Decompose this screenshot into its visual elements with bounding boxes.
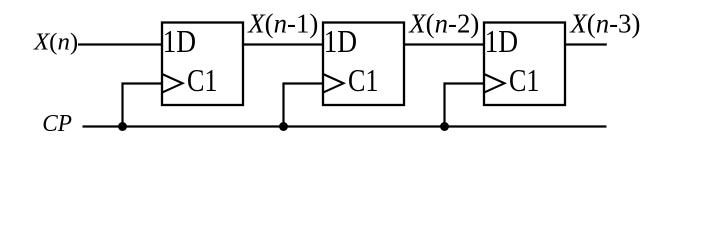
junction dot at CP/U1 stub [118,122,127,131]
svg-text:X(n-3): X(n-3) [569,9,640,39]
svg-text:C1: C1 [348,63,379,98]
wire input X(n) to FF1 [78,43,163,45]
wire FF1 output to FF2 [243,43,324,45]
svg-text:1D: 1D [324,24,358,59]
svg-text:1D: 1D [163,24,197,59]
wire FF2 output to FF3 [404,43,485,45]
flip-flop U1 box [162,23,243,106]
flip-flop U3 box [484,23,565,106]
svg-text:1D: 1D [485,24,518,59]
clock edge triangle of U1 [162,74,183,93]
svg-text:X(n): X(n) [33,29,78,56]
junction dot at CP/U3 stub [440,122,449,131]
svg-text:X(n-1): X(n-1) [247,9,318,39]
wire FF3 output [565,43,607,45]
junction dot at CP/U2 stub [279,122,288,131]
svg-text:C1: C1 [187,63,218,98]
wire clock stub to U3 [445,84,486,127]
clock edge triangle of U3 [484,74,505,93]
wire CP bus [83,125,607,127]
wire clock stub to U2 [284,84,325,127]
wire clock stub to U1 [123,84,164,127]
clock edge triangle of U2 [323,74,344,93]
svg-text:CP: CP [42,110,72,137]
flip-flop U2 box [323,23,404,106]
svg-text:C1: C1 [509,63,540,98]
svg-text:X(n-2): X(n-2) [408,9,479,39]
